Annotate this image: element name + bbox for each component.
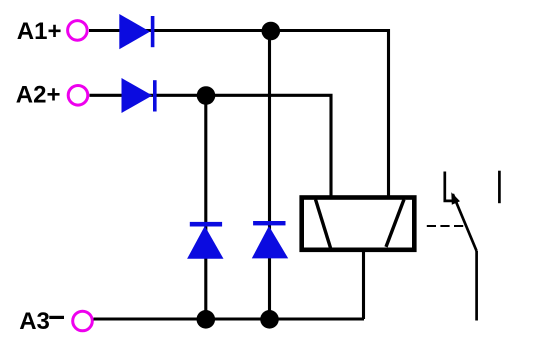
diode D2 (series A2)	[122, 78, 157, 113]
terminal A1	[68, 21, 88, 41]
svg-text:A3: A3	[19, 308, 50, 335]
wire A1 horizontal and down to coil	[89, 31, 389, 198]
diode D4 (vertical right)	[252, 221, 288, 258]
terminal A2	[68, 86, 88, 106]
contact NC terminal (L shape)	[445, 172, 458, 201]
wire vertical from A1 junction through diode D4 to bottom rail	[268, 31, 271, 319]
node junction dot rail left	[197, 310, 216, 329]
relay coil K1 box	[302, 198, 415, 250]
svg-text:A1+: A1+	[17, 18, 62, 45]
node junction dot A2	[197, 86, 216, 105]
contact arm arrowhead	[451, 192, 460, 205]
coil inner slant right	[386, 199, 404, 247]
svg-text:A2+: A2+	[16, 81, 61, 108]
diode D1 (series A1)	[119, 14, 154, 49]
contact movable arm	[453, 194, 477, 251]
node junction dot rail right	[260, 310, 279, 329]
node junction dot A1	[262, 22, 281, 41]
wire vertical from A2 junction through diode D3 to bottom rail	[204, 95, 207, 319]
wire bottom rail A3	[94, 317, 365, 320]
wire A2 horizontal and down to coil	[90, 95, 332, 197]
label A3 minus dash	[49, 316, 64, 319]
contact common wire down	[475, 251, 478, 321]
diode D3 (vertical left)	[187, 222, 223, 259]
contact NO terminal	[498, 171, 501, 204]
coil inner slant left	[316, 199, 331, 248]
terminal A3	[73, 311, 93, 331]
wire coil bottom to rail	[362, 250, 365, 319]
dashed actuation link	[427, 225, 464, 227]
